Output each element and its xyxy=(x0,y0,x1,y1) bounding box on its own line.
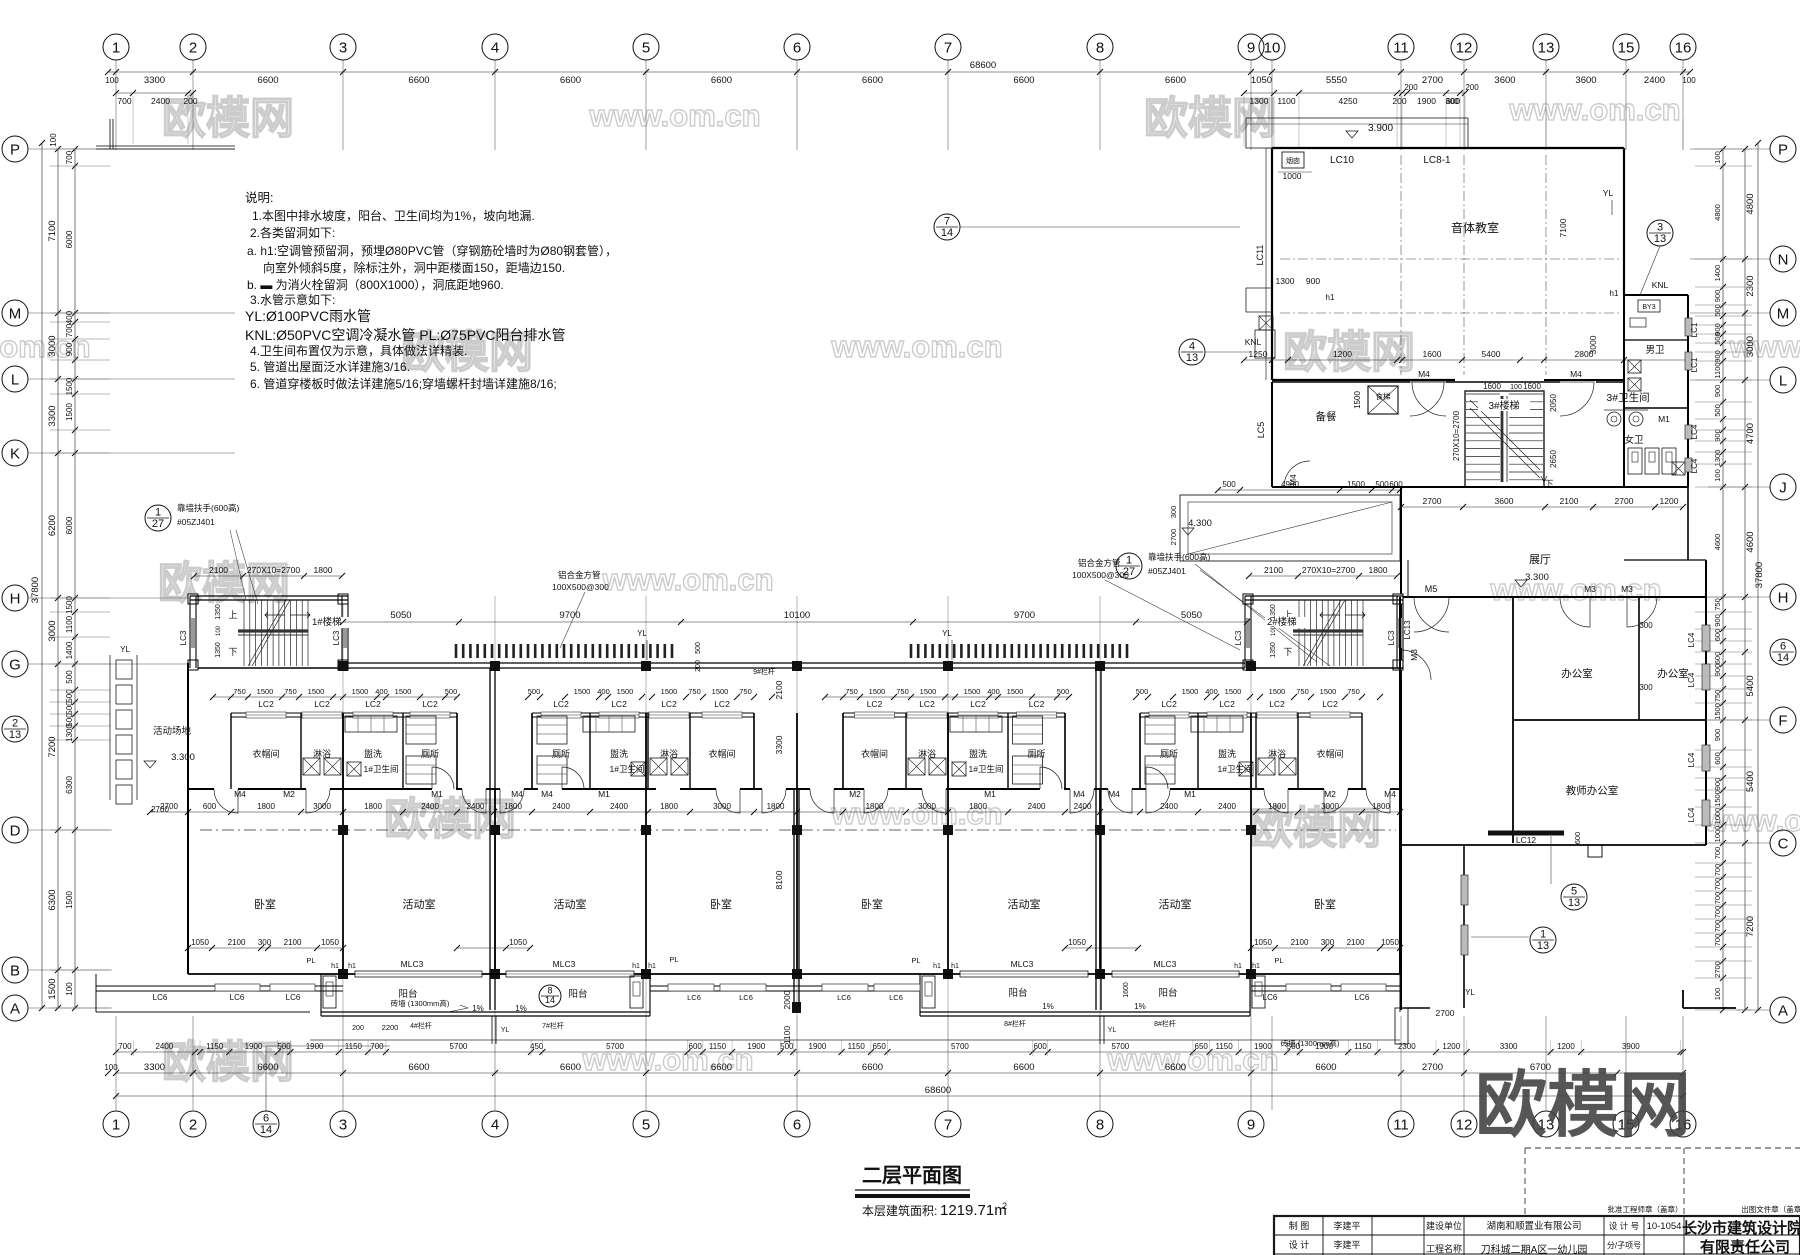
svg-text:h1: h1 xyxy=(632,963,640,970)
svg-text:1500: 1500 xyxy=(65,377,74,395)
svg-text:LC2: LC2 xyxy=(919,699,935,709)
svg-text:1900: 1900 xyxy=(1254,1042,1272,1051)
svg-text:M1: M1 xyxy=(1658,414,1670,424)
svg-text:500: 500 xyxy=(1222,480,1236,489)
svg-text:M2: M2 xyxy=(849,789,861,799)
railing left xyxy=(456,644,672,658)
svg-text:1800: 1800 xyxy=(504,802,522,811)
svg-text:5700: 5700 xyxy=(1111,1042,1129,1051)
svg-text:淋浴: 淋浴 xyxy=(918,748,936,759)
svg-text:400: 400 xyxy=(987,687,1000,696)
svg-text:3000: 3000 xyxy=(47,620,58,641)
svg-text:1350: 1350 xyxy=(1270,642,1277,658)
svg-text:100: 100 xyxy=(216,625,222,636)
svg-text:200: 200 xyxy=(695,660,702,672)
svg-text:1150: 1150 xyxy=(709,1042,727,1051)
svg-text:2700: 2700 xyxy=(1422,1062,1443,1073)
svg-text:6600: 6600 xyxy=(1013,75,1034,86)
svg-text:14: 14 xyxy=(1777,652,1789,664)
grid bubbles left xyxy=(2,136,28,162)
svg-text:1350: 1350 xyxy=(215,604,222,620)
svg-text:5. 管道出屋面泛水详建施3/16.: 5. 管道出屋面泛水详建施3/16. xyxy=(250,359,410,374)
svg-text:1300: 1300 xyxy=(65,724,74,742)
svg-text:上: 上 xyxy=(228,610,237,620)
svg-text:盥洗: 盥洗 xyxy=(1218,748,1236,759)
svg-text:办公室: 办公室 xyxy=(1561,667,1593,680)
corridor dim 5050-9700 xyxy=(343,621,1247,623)
svg-text:700: 700 xyxy=(1713,920,1722,933)
svg-text:LC6: LC6 xyxy=(739,993,753,1002)
svg-text:下: 下 xyxy=(228,647,237,657)
svg-text:200: 200 xyxy=(352,1025,364,1032)
svg-text:M4: M4 xyxy=(1384,789,1396,799)
svg-text:9700: 9700 xyxy=(1014,610,1035,621)
svg-text:7: 7 xyxy=(944,1116,952,1133)
exhibition dim row xyxy=(1401,506,1683,508)
dimension chain left mid xyxy=(57,149,59,1008)
svg-text:7100: 7100 xyxy=(47,220,58,241)
svg-text:2700: 2700 xyxy=(1423,496,1442,506)
block roof canopy xyxy=(1246,118,1468,148)
svg-text:M1: M1 xyxy=(984,789,996,799)
svg-text:盥洗: 盥洗 xyxy=(610,748,628,759)
grid bubbles right xyxy=(1770,136,1796,162)
svg-text:A: A xyxy=(1778,1002,1788,1019)
svg-text:LC6: LC6 xyxy=(230,993,245,1002)
unit dims small xyxy=(213,696,457,698)
svg-text:2700: 2700 xyxy=(1169,529,1178,546)
unit 1 washrooms xyxy=(231,712,457,714)
svg-text:8: 8 xyxy=(1096,1116,1104,1133)
office windows LC4 xyxy=(1702,625,1710,651)
svg-text:700: 700 xyxy=(1713,878,1722,891)
svg-text:1900: 1900 xyxy=(306,1042,324,1051)
svg-text:600: 600 xyxy=(1713,629,1722,642)
svg-text:1500: 1500 xyxy=(964,687,981,696)
left outdoor strip xyxy=(109,655,111,800)
svg-text:750: 750 xyxy=(1347,687,1360,696)
svg-text:C: C xyxy=(1778,835,1789,852)
balcony dim rows xyxy=(188,947,343,949)
svg-text:LC4: LC4 xyxy=(1690,458,1699,473)
svg-text:h1: h1 xyxy=(331,963,339,970)
svg-text:YL: YL xyxy=(1108,1027,1117,1034)
svg-text:1500: 1500 xyxy=(1713,703,1722,720)
svg-text:900: 900 xyxy=(1713,385,1722,398)
svg-text:1500: 1500 xyxy=(869,687,886,696)
svg-text:1%: 1% xyxy=(1134,1002,1146,1011)
svg-text:3300: 3300 xyxy=(774,735,784,754)
svg-text:900: 900 xyxy=(1306,276,1320,286)
svg-text:4.卫生间布置仅为示意，具体做法详精装.: 4.卫生间布置仅为示意，具体做法详精装. xyxy=(250,343,467,358)
svg-text:2400: 2400 xyxy=(151,96,170,106)
svg-text:4600: 4600 xyxy=(1713,534,1722,551)
svg-text:YL: YL xyxy=(1465,988,1475,997)
svg-text:2: 2 xyxy=(12,718,18,730)
svg-text:LC4: LC4 xyxy=(1690,424,1699,439)
svg-text:3300: 3300 xyxy=(1500,1042,1518,1051)
svg-text:700: 700 xyxy=(65,150,74,164)
svg-text:N: N xyxy=(1778,251,1789,268)
svg-text:1100: 1100 xyxy=(782,1026,792,1045)
svg-text:2: 2 xyxy=(1002,1201,1007,1211)
svg-text:PL: PL xyxy=(669,955,678,964)
unit 3 washrooms xyxy=(843,712,1065,714)
svg-text:7: 7 xyxy=(944,39,952,56)
svg-text:教师办公室: 教师办公室 xyxy=(1566,784,1619,797)
svg-text:1600: 1600 xyxy=(1423,349,1442,359)
svg-text:刀科城二期A区一幼儿园: 刀科城二期A区一幼儿园 xyxy=(1481,1243,1588,1255)
svg-text:2700: 2700 xyxy=(151,805,169,814)
svg-text:M4: M4 xyxy=(234,789,246,799)
svg-text:3300: 3300 xyxy=(144,75,165,86)
svg-text:P: P xyxy=(10,141,20,158)
svg-text:h1: h1 xyxy=(1326,293,1335,302)
unit 4 washrooms xyxy=(1140,712,1362,714)
svg-text:KNL: KNL xyxy=(1652,280,1669,290)
svg-text:LC2: LC2 xyxy=(553,699,569,709)
svg-text:500: 500 xyxy=(277,1042,291,1051)
svg-text:2400: 2400 xyxy=(1218,802,1236,811)
svg-text:900: 900 xyxy=(1713,614,1722,627)
handrail note mid xyxy=(1116,553,1142,579)
svg-text:有限责任公司: 有限责任公司 xyxy=(1700,1238,1790,1255)
stair 3 with treads xyxy=(1465,391,1544,487)
svg-text:M1: M1 xyxy=(431,789,443,799)
svg-text:YL:Ø100PVC雨水管: YL:Ø100PVC雨水管 xyxy=(245,308,371,324)
svg-text:5400: 5400 xyxy=(1745,675,1756,696)
svg-text:3000: 3000 xyxy=(313,802,331,811)
svg-text:展厅: 展厅 xyxy=(1529,553,1551,566)
svg-text:2100: 2100 xyxy=(774,680,784,699)
svg-text:2100: 2100 xyxy=(1264,565,1283,575)
svg-text:700: 700 xyxy=(1713,934,1722,947)
svg-text:500: 500 xyxy=(695,642,702,654)
block interior dim row xyxy=(1244,359,1688,361)
detail ref 4/13 xyxy=(1179,339,1205,365)
svg-text:900: 900 xyxy=(1713,778,1722,791)
left end balcony band xyxy=(95,974,97,1012)
svg-text:2100: 2100 xyxy=(1560,496,1579,506)
svg-text:1#卫生间: 1#卫生间 xyxy=(1218,764,1253,774)
svg-text:1800: 1800 xyxy=(1369,565,1388,575)
svg-text:铝合金方管: 铝合金方管 xyxy=(1078,558,1121,568)
svg-text:3000: 3000 xyxy=(1588,335,1598,354)
svg-text:6: 6 xyxy=(263,1113,269,1125)
dimension chain bottom small xyxy=(116,1051,1683,1053)
svg-text:1900: 1900 xyxy=(809,1042,827,1051)
svg-text:14: 14 xyxy=(941,227,953,239)
svg-text:8100: 8100 xyxy=(774,870,784,889)
svg-text:靠墙扶手(600高): 靠墙扶手(600高) xyxy=(177,503,240,513)
svg-text:6600: 6600 xyxy=(408,1062,429,1073)
svg-text:5700: 5700 xyxy=(450,1042,468,1051)
svg-text:M: M xyxy=(9,305,22,322)
svg-text:女卫: 女卫 xyxy=(1624,434,1644,446)
svg-text:4: 4 xyxy=(491,1116,499,1133)
svg-text:700: 700 xyxy=(1713,864,1722,877)
svg-text:阳台: 阳台 xyxy=(1008,987,1027,999)
svg-text:6. 管道穿楼板时做法详建施5/16;穿墙螺杆封墙详建施8: 6. 管道穿楼板时做法详建施5/16;穿墙螺杆封墙详建施8/16; xyxy=(250,376,557,391)
svg-text:900: 900 xyxy=(1713,290,1722,303)
svg-text:LC3: LC3 xyxy=(1234,630,1243,645)
svg-text:1150: 1150 xyxy=(1354,1042,1372,1051)
lower-right walls xyxy=(1463,845,1465,1008)
svg-text:h1: h1 xyxy=(348,963,356,970)
svg-text:LC2: LC2 xyxy=(1269,699,1285,709)
svg-text:200: 200 xyxy=(183,96,197,106)
right end balcony band xyxy=(1251,985,1400,987)
axis dashed D xyxy=(200,829,1396,831)
block left wall step xyxy=(1246,287,1272,289)
window LC12 xyxy=(1488,831,1564,836)
svg-text:13: 13 xyxy=(1538,39,1555,56)
unit 2 washrooms xyxy=(532,712,754,714)
svg-text:3: 3 xyxy=(1657,222,1663,234)
svg-text:卧室: 卧室 xyxy=(861,897,883,911)
dimension total right xyxy=(1757,143,1759,1010)
svg-text:3000: 3000 xyxy=(47,335,58,356)
svg-text:批准工程师章（盖章）: 批准工程师章（盖章） xyxy=(1608,1204,1683,1214)
svg-text:1#卫生间: 1#卫生间 xyxy=(969,764,1004,774)
svg-text:1000: 1000 xyxy=(1713,826,1722,843)
svg-text:4: 4 xyxy=(1189,341,1195,353)
svg-text:3600: 3600 xyxy=(1575,75,1596,86)
svg-text:700: 700 xyxy=(1713,892,1722,905)
dimension chain top-right small xyxy=(1244,92,1465,94)
svg-text:LC2: LC2 xyxy=(1161,699,1177,709)
detail ref 13 low xyxy=(1544,952,1546,990)
detail ref 7/14 xyxy=(934,214,960,240)
wing bottom wall xyxy=(188,973,1400,975)
svg-text:2100: 2100 xyxy=(228,938,246,947)
svg-text:13: 13 xyxy=(1568,897,1580,909)
svg-text:1050: 1050 xyxy=(191,938,209,947)
svg-text:6600: 6600 xyxy=(711,1062,732,1073)
svg-text:www.om.cn: www.om.cn xyxy=(1728,329,1800,364)
svg-text:2: 2 xyxy=(189,39,197,56)
dimension chain left small xyxy=(74,149,76,1008)
svg-text:2400: 2400 xyxy=(552,802,570,811)
svg-text:1%: 1% xyxy=(515,1004,527,1013)
svg-text:淋浴: 淋浴 xyxy=(660,748,678,759)
svg-text:LC2: LC2 xyxy=(867,699,883,709)
svg-text:4250: 4250 xyxy=(1339,96,1358,106)
svg-text:6300: 6300 xyxy=(47,889,58,910)
svg-text:2650: 2650 xyxy=(1549,450,1558,468)
vestibule walls and seams xyxy=(456,713,458,789)
svg-text:衣帽间: 衣帽间 xyxy=(252,748,279,759)
svg-text:欧模网: 欧模网 xyxy=(1249,804,1381,853)
dimension chain top-left small xyxy=(116,92,193,94)
svg-text:G: G xyxy=(9,656,21,673)
svg-text:分/子项号: 分/子项号 xyxy=(1607,1241,1641,1250)
svg-text:3#楼梯: 3#楼梯 xyxy=(1488,399,1519,412)
svg-text:650: 650 xyxy=(872,1042,886,1051)
svg-text:LC6: LC6 xyxy=(889,993,903,1002)
dimension chain right mid xyxy=(1744,149,1746,1010)
svg-text:1050: 1050 xyxy=(509,938,527,947)
svg-text:14: 14 xyxy=(545,995,555,1005)
svg-text:1300: 1300 xyxy=(1250,96,1269,106)
svg-text:750: 750 xyxy=(233,687,246,696)
svg-text:1500: 1500 xyxy=(352,687,369,696)
svg-text:2300: 2300 xyxy=(1745,275,1756,296)
svg-text:1050: 1050 xyxy=(1251,75,1272,86)
svg-text:1600: 1600 xyxy=(1123,982,1130,998)
svg-text:5550: 5550 xyxy=(1326,75,1347,86)
svg-text:KNL: KNL xyxy=(1245,337,1262,347)
svg-text:卧室: 卧室 xyxy=(254,897,276,911)
svg-text:9: 9 xyxy=(1247,39,1255,56)
svg-text:盥洗: 盥洗 xyxy=(364,748,382,759)
svg-text:750: 750 xyxy=(688,687,701,696)
terrace 4.300 xyxy=(1180,495,1400,561)
svg-text:1000: 1000 xyxy=(1283,171,1302,181)
svg-text:M4: M4 xyxy=(1418,369,1430,379)
svg-text:J: J xyxy=(1779,479,1787,496)
svg-text:淋浴: 淋浴 xyxy=(313,748,331,759)
svg-text:3: 3 xyxy=(339,1116,347,1133)
canopy corner top-left xyxy=(109,119,111,149)
svg-text:500: 500 xyxy=(1713,404,1722,417)
svg-text:LC6: LC6 xyxy=(286,993,301,1002)
svg-text:68600: 68600 xyxy=(970,60,996,71)
svg-text:100: 100 xyxy=(1271,625,1277,636)
svg-text:300: 300 xyxy=(258,938,272,947)
dimension chain top main xyxy=(116,71,1683,73)
svg-text:6: 6 xyxy=(793,39,801,56)
svg-text:李建平: 李建平 xyxy=(1333,1239,1360,1250)
svg-text:LC2: LC2 xyxy=(714,699,730,709)
svg-text:1500: 1500 xyxy=(1320,687,1337,696)
svg-text:270X10=2700: 270X10=2700 xyxy=(1302,565,1355,575)
svg-text:LC4: LC4 xyxy=(1687,632,1696,647)
svg-text:a. h1:空调管预留洞，预埋Ø80PVC管（穿钢筋砼墙时: a. h1:空调管预留洞，预埋Ø80PVC管（穿钢筋砼墙时为Ø80钢套管）， xyxy=(247,243,617,258)
svg-text:1: 1 xyxy=(112,39,120,56)
svg-text:LC8-1: LC8-1 xyxy=(1423,155,1451,166)
svg-text:6600: 6600 xyxy=(408,75,429,86)
svg-text:1150: 1150 xyxy=(345,1042,363,1051)
svg-text:5050: 5050 xyxy=(1181,610,1202,621)
svg-text:300: 300 xyxy=(1445,97,1459,106)
svg-text:750: 750 xyxy=(1713,690,1722,703)
svg-text:2700: 2700 xyxy=(1436,1008,1455,1018)
ground line below balconies xyxy=(310,1039,1400,1041)
svg-text:1800: 1800 xyxy=(257,802,275,811)
annex windows xyxy=(1685,318,1692,336)
svg-text:活动室: 活动室 xyxy=(1159,897,1192,911)
svg-text:100: 100 xyxy=(65,982,74,996)
svg-text:6600: 6600 xyxy=(862,1062,883,1073)
grid bubbles bottom xyxy=(103,1111,129,1137)
svg-text:L: L xyxy=(1779,372,1787,389)
wing top wall xyxy=(348,662,1245,664)
svg-text:MLC3: MLC3 xyxy=(553,959,576,969)
svg-text:M1: M1 xyxy=(598,789,610,799)
detail ref 3/13 xyxy=(1647,220,1673,246)
svg-text:5: 5 xyxy=(642,1116,650,1133)
svg-text:4.300: 4.300 xyxy=(1188,518,1212,529)
svg-text:LC13: LC13 xyxy=(1403,620,1412,640)
svg-text:68600: 68600 xyxy=(925,1085,951,1096)
svg-text:300: 300 xyxy=(1639,683,1653,692)
svg-text:37800: 37800 xyxy=(30,577,41,603)
svg-text:音体教室: 音体教室 xyxy=(1451,220,1499,235)
svg-text:700: 700 xyxy=(65,323,74,337)
svg-text:100: 100 xyxy=(1682,76,1696,85)
svg-text:LC2: LC2 xyxy=(1322,699,1338,709)
svg-text:1050: 1050 xyxy=(1254,938,1272,947)
svg-text:1500: 1500 xyxy=(308,687,325,696)
svg-text:1000: 1000 xyxy=(1713,808,1722,825)
svg-text:1200: 1200 xyxy=(1660,496,1679,506)
svg-text:200: 200 xyxy=(1392,96,1406,106)
svg-text:B: B xyxy=(10,962,20,979)
svg-text:6600: 6600 xyxy=(711,75,732,86)
svg-text:500: 500 xyxy=(528,687,541,696)
svg-text:13: 13 xyxy=(1186,352,1198,364)
svg-text:M1: M1 xyxy=(1184,789,1196,799)
svg-text:2: 2 xyxy=(189,1116,197,1133)
svg-text:1200: 1200 xyxy=(1557,1042,1575,1051)
svg-text:2700: 2700 xyxy=(1615,496,1634,506)
svg-text:2100: 2100 xyxy=(284,938,302,947)
svg-text:1150: 1150 xyxy=(848,1042,866,1051)
svg-text:M2: M2 xyxy=(1324,789,1336,799)
dumbwaiter xyxy=(1368,386,1398,414)
svg-text:下: 下 xyxy=(1283,647,1292,657)
svg-text:1#卫生间: 1#卫生间 xyxy=(610,764,645,774)
svg-text:LC6: LC6 xyxy=(1355,993,1370,1002)
svg-text:100: 100 xyxy=(104,1063,118,1072)
svg-text:13: 13 xyxy=(1654,233,1666,245)
svg-text:1200: 1200 xyxy=(1442,1042,1460,1051)
big room walls xyxy=(187,663,189,974)
stair 2 xyxy=(1243,594,1253,604)
svg-text:5700: 5700 xyxy=(951,1042,969,1051)
svg-text:1800: 1800 xyxy=(969,802,987,811)
svg-text:750: 750 xyxy=(1296,687,1309,696)
svg-text:600: 600 xyxy=(689,1042,703,1051)
walls music classroom xyxy=(1272,147,1624,149)
svg-text:YL: YL xyxy=(1603,188,1614,198)
svg-text:LC3: LC3 xyxy=(332,630,341,645)
svg-text:砖墙 (1300mm高): 砖墙 (1300mm高) xyxy=(1281,1038,1340,1048)
svg-text:700: 700 xyxy=(1713,847,1722,860)
svg-text:300: 300 xyxy=(1639,621,1653,630)
svg-text:LC6: LC6 xyxy=(153,993,168,1002)
svg-text:200: 200 xyxy=(1465,83,1479,92)
svg-text:烟囱: 烟囱 xyxy=(1286,156,1300,165)
svg-text:7#栏杆: 7#栏杆 xyxy=(542,1021,564,1030)
svg-text:备餐: 备餐 xyxy=(1316,410,1338,423)
svg-text:600: 600 xyxy=(203,802,217,811)
svg-text:1900: 1900 xyxy=(245,1042,263,1051)
svg-text:100: 100 xyxy=(1510,384,1522,391)
svg-text:1500: 1500 xyxy=(617,687,634,696)
svg-text:D: D xyxy=(10,822,21,839)
svg-text:建设单位: 建设单位 xyxy=(1426,1220,1462,1231)
svg-text:1%: 1% xyxy=(472,1004,484,1013)
svg-text:LC2: LC2 xyxy=(1219,699,1235,709)
svg-text:LC4: LC4 xyxy=(1687,807,1696,822)
svg-text:6600: 6600 xyxy=(257,1062,278,1073)
svg-text:600: 600 xyxy=(1573,832,1582,845)
svg-text:MLC3: MLC3 xyxy=(1011,959,1034,969)
svg-text:3: 3 xyxy=(339,39,347,56)
svg-text:M: M xyxy=(1777,305,1790,322)
